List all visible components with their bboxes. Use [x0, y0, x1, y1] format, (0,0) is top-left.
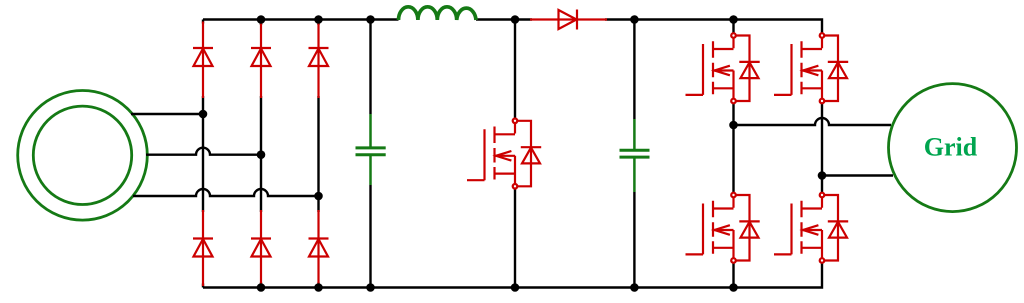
node bottom rail C1	[366, 283, 375, 292]
node bottom rail leg3	[314, 283, 323, 292]
inductor L1	[399, 7, 477, 20]
wire rectifier leg 3	[317, 20, 319, 288]
node bottom rail boost source	[511, 283, 520, 292]
wire rectifier leg 1	[202, 20, 204, 288]
mosfet Q3	[686, 193, 760, 263]
node top rail C1	[366, 15, 375, 24]
capacitor C2	[620, 119, 650, 192]
diode D7	[559, 10, 578, 30]
node phase B leg2	[257, 150, 266, 159]
node top rail C2	[630, 15, 639, 24]
diode D4	[193, 239, 213, 257]
mosfet Q4	[774, 193, 848, 263]
wire grid phase 2	[822, 174, 893, 176]
diode D1	[193, 48, 213, 66]
grid circle	[889, 84, 1017, 212]
node bottom rail leg2	[257, 283, 266, 292]
wire boost mosfet drain	[514, 20, 516, 119]
node top rail leg2	[257, 15, 266, 24]
diode D2	[251, 48, 271, 66]
mosfet Q5 boost switch	[467, 119, 541, 189]
diode D7 leads	[530, 18, 607, 20]
node phase A leg1	[199, 110, 208, 119]
wire grid phase 1	[734, 118, 892, 125]
wire phase B	[146, 148, 261, 155]
wire H-bridge left leg top	[732, 20, 734, 34]
wire capacitor C1 leg	[369, 20, 371, 288]
wire phase A	[131, 113, 203, 115]
diode D3 lead	[317, 23, 319, 285]
mosfet Q2	[774, 33, 848, 103]
mosfet Q1	[686, 33, 760, 103]
wire rectifier leg 2	[260, 20, 262, 288]
node top rail boost drain	[511, 15, 520, 24]
diode D1 lead	[202, 22, 204, 287]
wire phase C	[133, 189, 319, 196]
diode D6	[309, 239, 329, 257]
wire boost mosfet source	[514, 189, 516, 288]
node phase C leg3	[314, 192, 323, 201]
capacitor C1	[356, 114, 386, 185]
node bottom rail H-bridge	[729, 283, 738, 292]
node H-bridge left mid	[729, 121, 738, 130]
wire top rail	[203, 20, 822, 34]
node H-bridge right mid	[818, 171, 827, 180]
diode D3	[309, 48, 329, 66]
wire bottom rail	[203, 263, 822, 288]
svg-text:Grid: Grid	[924, 132, 978, 161]
node top rail leg3	[314, 15, 323, 24]
generator G1	[18, 91, 148, 221]
node top rail H-bridge	[729, 15, 738, 24]
wire H-bridge left leg middle	[732, 103, 734, 192]
wire H-bridge right leg middle	[821, 103, 823, 192]
diode D5	[251, 239, 271, 257]
diode D2 lead	[260, 23, 262, 285]
wire H-bridge left leg bottom	[732, 263, 734, 288]
node bottom rail C2	[630, 283, 639, 292]
wire capacitor C2 leg	[633, 20, 635, 288]
